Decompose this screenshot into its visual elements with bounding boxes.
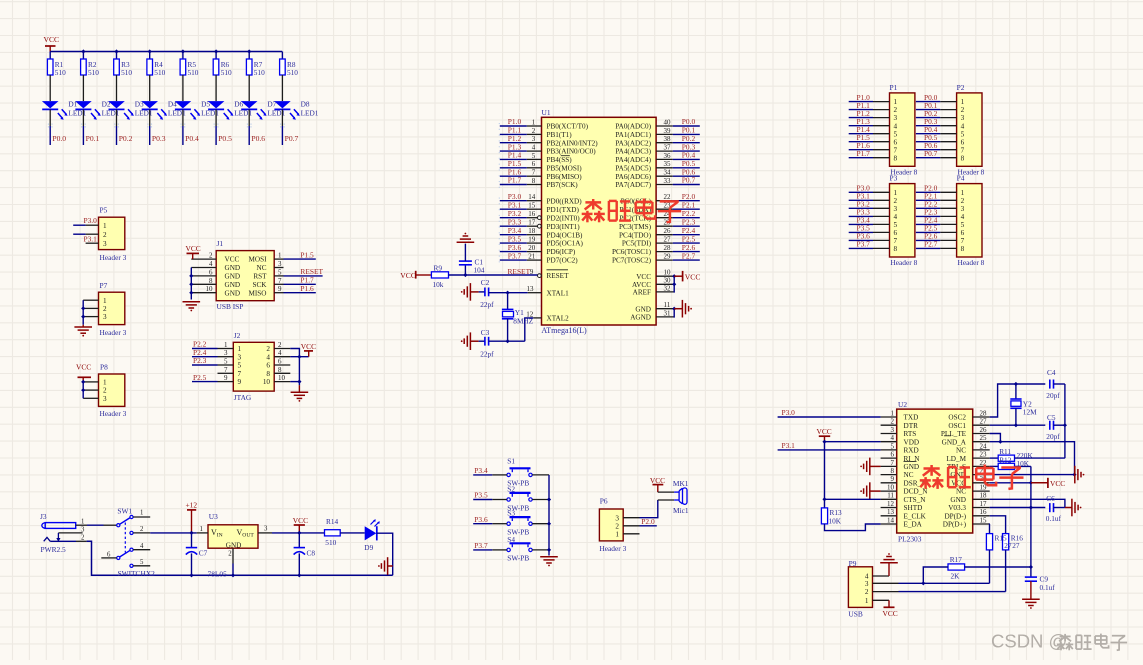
svg-text:2: 2	[140, 526, 144, 533]
svg-text:PB1(T1): PB1(T1)	[547, 131, 573, 139]
wire net P3.1 to U1 pin 15	[500, 208, 527, 210]
wire U2 GND_A to ground	[990, 442, 1075, 475]
svg-text:D7: D7	[267, 100, 276, 109]
svg-text:P0.7: P0.7	[924, 149, 938, 158]
U2 GND overline	[904, 461, 917, 463]
svg-text:3: 3	[103, 395, 107, 403]
svg-text:10: 10	[887, 484, 895, 492]
svg-text:4: 4	[961, 122, 965, 130]
svg-text:1: 1	[278, 252, 282, 260]
wire J2 pin10 stub	[290, 381, 299, 383]
svg-text:3: 3	[103, 240, 107, 248]
wire R17 to C9 node	[965, 566, 1031, 568]
svg-text:6: 6	[894, 229, 898, 237]
svg-text:39: 39	[664, 127, 672, 135]
wire net P1.5 to J1 MOSI	[284, 258, 316, 260]
svg-text:6: 6	[266, 362, 270, 370]
svg-text:NC: NC	[956, 488, 966, 496]
svg-text:3: 3	[224, 349, 228, 357]
svg-text:20pf: 20pf	[1046, 391, 1060, 400]
junction C8/rail	[297, 573, 301, 577]
svg-text:MOSI: MOSI	[249, 256, 268, 264]
svg-text:17: 17	[528, 219, 536, 227]
wire D5 to net P0.4	[182, 109, 184, 126]
svg-text:P3.7: P3.7	[857, 240, 871, 249]
wire net P2.5 to P4.6	[916, 231, 940, 233]
wire D7 to net P0.6	[248, 109, 250, 126]
svg-text:C8: C8	[307, 548, 316, 557]
capacitor C8	[298, 533, 300, 548]
svg-text:GND: GND	[225, 289, 241, 297]
wire J2 pin4 to VCC	[290, 356, 308, 358]
wire net P2.4 to U1 pin 26	[673, 234, 700, 236]
svg-text:4: 4	[894, 122, 898, 130]
svg-text:Header 3: Header 3	[100, 328, 127, 337]
svg-text:23: 23	[980, 451, 988, 459]
svg-text:510: 510	[55, 68, 66, 77]
wire net P1.0 to U1 pin 1	[500, 125, 527, 127]
junction C7/rail	[189, 573, 193, 577]
svg-text:510: 510	[88, 68, 99, 77]
svg-text:VCC: VCC	[636, 273, 651, 281]
svg-text:8: 8	[894, 245, 898, 253]
wire R4 to D4	[149, 75, 151, 101]
svg-text:18: 18	[528, 227, 536, 235]
svg-text:VCC: VCC	[225, 256, 240, 264]
junction P7 pin3	[81, 315, 85, 319]
wire net P2.0 to P4.1	[916, 191, 940, 193]
svg-text:2: 2	[228, 550, 232, 557]
svg-text:SHTD: SHTD	[904, 504, 923, 512]
wire net P2.6 to P4.7	[916, 239, 940, 241]
svg-text:VCC: VCC	[817, 427, 832, 436]
svg-text:PB5(MOSI): PB5(MOSI)	[547, 164, 583, 172]
wire J3.1 to SW1.3	[87, 524, 104, 526]
svg-text:32: 32	[664, 284, 672, 292]
svg-text:2: 2	[894, 197, 898, 205]
svg-text:VCC: VCC	[685, 272, 701, 281]
wire net P0.3 to P2.4	[916, 125, 940, 127]
svg-text:TXD: TXD	[904, 414, 919, 422]
capacitor C6 0.1uf	[1049, 503, 1051, 512]
svg-text:D5: D5	[201, 100, 210, 109]
svg-text:OSC1: OSC1	[948, 422, 966, 430]
svg-text:8: 8	[961, 154, 965, 162]
resistor R12 10K	[998, 463, 1014, 469]
svg-text:RESET: RESET	[547, 272, 570, 280]
svg-text:Header 8: Header 8	[890, 258, 917, 267]
svg-text:DP(D+): DP(D+)	[943, 521, 967, 529]
svg-text:37: 37	[664, 144, 672, 152]
svg-text:5: 5	[961, 221, 965, 229]
wire net P2.3 to P4.4	[916, 215, 940, 217]
svg-text:P2.7: P2.7	[924, 240, 938, 249]
svg-text:15: 15	[528, 202, 536, 210]
svg-text:D2: D2	[102, 100, 111, 109]
wire R1 to D1	[49, 75, 51, 101]
junction on VCC bus at R6	[214, 49, 218, 53]
svg-text:10: 10	[206, 285, 214, 293]
svg-text:34: 34	[664, 169, 672, 177]
junction on VCC bus at R3	[114, 49, 118, 53]
svg-text:D3: D3	[135, 100, 144, 109]
resistor R7 510	[246, 59, 252, 75]
ground (U2 pin10)	[870, 490, 881, 492]
wire net P1.7 to U1 pin 8	[500, 184, 527, 186]
svg-text:8: 8	[266, 370, 270, 378]
svg-text:4: 4	[140, 543, 144, 550]
svg-text:6: 6	[532, 160, 536, 168]
wire R14 to D9	[340, 532, 365, 534]
svg-text:P2.5: P2.5	[193, 373, 207, 382]
wire net P3.5 to U1 pin 19	[500, 242, 527, 244]
svg-text:7: 7	[224, 366, 228, 374]
svg-text:PA1(ADC1): PA1(ADC1)	[615, 131, 651, 139]
svg-text:PD6(ICP): PD6(ICP)	[547, 248, 576, 256]
wire P8 common	[82, 382, 84, 398]
svg-text:PWR2.5: PWR2.5	[41, 545, 67, 554]
wire R9 to U1 RESET	[449, 274, 538, 276]
svg-text:P0.7: P0.7	[285, 134, 299, 143]
svg-text:P3.5: P3.5	[474, 491, 488, 500]
svg-text:4: 4	[209, 260, 213, 268]
svg-text:2: 2	[894, 106, 898, 114]
ground (U2 right)	[1074, 466, 1076, 484]
ground (rail end)	[388, 565, 393, 567]
wire R16 to P9.2 net	[1005, 550, 1007, 592]
svg-text:P1.6: P1.6	[300, 284, 314, 293]
wire net P3.5 to P3.6	[849, 231, 873, 233]
svg-text:AGND: AGND	[630, 314, 651, 322]
junction V03.3	[1029, 505, 1033, 509]
ground (C9)	[1022, 598, 1040, 600]
svg-text:E_CLK: E_CLK	[904, 512, 927, 520]
wire C2 to U1 XTAL1	[489, 292, 528, 294]
svg-text:2: 2	[532, 127, 536, 135]
wire P7 common	[82, 300, 84, 325]
svg-text:510: 510	[154, 68, 165, 77]
resistor R9 10k	[431, 272, 448, 278]
junction OSC2/Y2	[1014, 382, 1018, 386]
svg-text:10: 10	[278, 374, 286, 382]
svg-text:11: 11	[887, 492, 894, 500]
svg-text:9: 9	[224, 374, 228, 382]
junction P8 pin1	[81, 380, 85, 384]
junction VCC pin20	[1029, 481, 1033, 485]
svg-text:C3: C3	[481, 328, 490, 337]
wire bus to R8	[281, 52, 283, 60]
svg-text:P2.7: P2.7	[682, 251, 696, 260]
svg-text:19: 19	[528, 236, 536, 244]
svg-text:27: 27	[1012, 541, 1020, 550]
svg-text:PB2(AIN0/INT2): PB2(AIN0/INT2)	[547, 139, 599, 147]
J3 switch arrow	[57, 533, 59, 539]
svg-text:14: 14	[528, 193, 536, 201]
svg-text:GND: GND	[904, 463, 920, 471]
LED D5	[175, 101, 192, 108]
wire net P3.0 to U2 TXD	[778, 416, 881, 418]
svg-text:PB3(AIN0/OC0): PB3(AIN0/OC0)	[547, 148, 597, 156]
svg-text:VCC: VCC	[650, 476, 665, 485]
wire P6.3 to MK1	[640, 500, 658, 518]
wire U2 VDD	[825, 441, 881, 443]
wire D4 to net P0.3	[149, 109, 151, 126]
svg-text:VCC: VCC	[883, 609, 898, 618]
wire J2 right common	[290, 349, 299, 386]
svg-text:RST: RST	[253, 273, 267, 281]
resistor R5 510	[180, 59, 186, 75]
svg-text:27: 27	[980, 418, 988, 426]
ground (P9 pin4, inverted)	[888, 563, 890, 576]
svg-text:8: 8	[278, 366, 282, 374]
wire net P2.3 to U1 pin 25	[673, 225, 700, 227]
wire net P3.7 to P3.8	[849, 247, 873, 249]
svg-text:20: 20	[528, 244, 536, 252]
wire net P2.0 to U1 pin 22	[673, 200, 700, 202]
wire U2 PLL_TE to GND_A	[990, 434, 1001, 442]
svg-text:10: 10	[263, 378, 271, 386]
svg-text:5: 5	[532, 152, 536, 160]
svg-text:PB0(XCT/T0): PB0(XCT/T0)	[547, 123, 589, 131]
svg-text:3: 3	[532, 135, 536, 143]
LED D2	[75, 101, 92, 108]
svg-text:MISO: MISO	[249, 289, 267, 297]
svg-text:8: 8	[891, 467, 895, 475]
svg-text:16: 16	[980, 508, 988, 516]
svg-text:3: 3	[264, 526, 268, 533]
svg-text:2K: 2K	[951, 571, 961, 580]
junction P8 pin2	[81, 388, 85, 392]
svg-text:18: 18	[980, 492, 988, 500]
svg-text:PB4(SS): PB4(SS)	[547, 156, 573, 164]
svg-text:NC: NC	[956, 447, 966, 455]
capacitor C2 22pf	[479, 291, 485, 293]
wire net P1.2 to U1 pin 3	[500, 142, 527, 144]
svg-text:PD0((RXD): PD0((RXD)	[547, 197, 583, 205]
svg-text:1: 1	[532, 118, 536, 126]
svg-text:P2.0: P2.0	[641, 517, 655, 526]
svg-text:P3.0: P3.0	[84, 216, 98, 225]
svg-text:24: 24	[980, 442, 988, 450]
svg-text:3: 3	[865, 580, 869, 588]
svg-text:26: 26	[664, 227, 672, 235]
svg-text:VCC: VCC	[400, 271, 416, 280]
svg-text:PA6(ADC6): PA6(ADC6)	[615, 173, 651, 181]
LED D1	[42, 101, 59, 108]
svg-text:PC7(TOSC2): PC7(TOSC2)	[612, 257, 652, 265]
svg-text:P4: P4	[957, 174, 965, 183]
wire P9.3 to R15/R17	[899, 582, 990, 584]
wire net RESET to J1 RST	[284, 275, 323, 277]
wire net P0.1 to P2.2	[916, 109, 940, 111]
wire U2 CTS_N	[825, 498, 881, 500]
svg-text:U3: U3	[209, 512, 218, 521]
svg-text:J1: J1	[217, 239, 224, 248]
svg-text:1: 1	[891, 409, 895, 417]
wire net P0.4 to U1 pin 36	[673, 158, 700, 160]
svg-text:2: 2	[103, 305, 107, 313]
svg-text:PC4(TDO): PC4(TDO)	[619, 231, 652, 239]
svg-text:PD2(INT0): PD2(INT0)	[547, 214, 581, 222]
svg-text:P2: P2	[957, 83, 965, 92]
resistor R8 510	[280, 59, 286, 75]
svg-text:RTS: RTS	[904, 430, 917, 438]
wire net P3.3 to U1 pin 17	[500, 225, 527, 227]
svg-text:8: 8	[209, 277, 213, 285]
junction RESET/C1	[463, 273, 467, 277]
svg-text:PA3(ADC2): PA3(ADC2)	[615, 139, 651, 147]
svg-text:17: 17	[980, 500, 988, 508]
svg-text:P3: P3	[890, 174, 898, 183]
svg-text:P0.4: P0.4	[185, 134, 199, 143]
svg-text:104: 104	[474, 265, 485, 274]
svg-text:USB ISP: USB ISP	[217, 302, 244, 311]
wire R15 to P9.3 net	[989, 550, 991, 583]
svg-text:GND: GND	[226, 541, 242, 549]
svg-text:0.1uf: 0.1uf	[1046, 514, 1062, 523]
wire net P0.0 to P2.1	[916, 101, 940, 103]
svg-text:1: 1	[894, 189, 898, 197]
wire net P1.6 to P1.7	[849, 149, 873, 151]
svg-text:PC5(TDI): PC5(TDI)	[622, 240, 652, 248]
svg-text:4: 4	[278, 349, 282, 357]
wire R3 to D3	[116, 75, 118, 101]
svg-text:SWITCHX2: SWITCHX2	[118, 569, 156, 578]
svg-text:ATmega16(L): ATmega16(L)	[541, 326, 587, 335]
junction P7 pin2	[81, 306, 85, 310]
wire net P3.1 to P5.2	[73, 233, 85, 235]
svg-text:DCD_N: DCD_N	[904, 488, 929, 496]
junction J1 pin10	[189, 291, 193, 295]
svg-text:10k: 10k	[433, 280, 444, 289]
svg-text:6: 6	[209, 268, 213, 276]
svg-text:PD7(OC2): PD7(OC2)	[547, 257, 579, 265]
svg-text:1: 1	[615, 530, 619, 538]
ground (C1, inverted)	[457, 241, 475, 243]
wire D3 to net P0.2	[116, 109, 118, 126]
ground (C2)	[470, 291, 478, 293]
svg-text:P1: P1	[890, 83, 898, 92]
svg-text:Mic1: Mic1	[673, 506, 689, 515]
svg-text:22pf: 22pf	[480, 349, 494, 358]
crystal Y2 12M	[1015, 384, 1017, 399]
watermark red 1	[592, 199, 594, 210]
resistor R15 27	[986, 534, 992, 550]
junction on VCC bus at R7	[247, 49, 251, 53]
resistor R14 510	[325, 530, 341, 536]
wire net P0.3 to U1 pin 37	[673, 150, 700, 152]
resistor R1 510	[47, 59, 53, 75]
svg-text:PL2303: PL2303	[898, 535, 922, 544]
svg-text:P3.1: P3.1	[782, 441, 796, 450]
svg-text:510: 510	[287, 68, 298, 77]
svg-text:3: 3	[278, 260, 282, 268]
wire net P1.1 to P1.2	[849, 109, 873, 111]
svg-text:GND: GND	[225, 281, 241, 289]
svg-text:21: 21	[528, 253, 536, 261]
svg-text:3: 3	[961, 205, 965, 213]
wire net P3.4 to S1	[473, 474, 492, 476]
svg-text:1: 1	[103, 379, 107, 387]
svg-text:Header 8: Header 8	[958, 258, 985, 267]
svg-text:22pf: 22pf	[480, 300, 494, 309]
watermark red 2	[930, 465, 933, 476]
svg-text:P5: P5	[100, 206, 108, 215]
svg-text:SW1: SW1	[117, 506, 132, 515]
ground (S1-S4)	[540, 556, 558, 558]
svg-text:GND: GND	[950, 496, 966, 504]
wire U2 VCC pin20	[990, 482, 1031, 484]
wire net P2.2 to P4.3	[916, 207, 940, 209]
svg-text:3: 3	[961, 114, 965, 122]
svg-text:4: 4	[891, 434, 895, 442]
svg-text:2: 2	[103, 231, 107, 239]
svg-text:510: 510	[221, 68, 232, 77]
svg-text:8: 8	[894, 154, 898, 162]
svg-text:VCC: VCC	[293, 516, 308, 525]
svg-text:4: 4	[961, 213, 965, 221]
wire net P0.5 to U1 pin 35	[673, 167, 700, 169]
wire U2 DP(D+) to R15	[989, 524, 991, 534]
wire net P3.2 to P3.3	[849, 207, 873, 209]
wire U2 TRI_S to R12	[990, 465, 999, 467]
wire net P2.3 to J2	[192, 364, 218, 366]
junction VCC/C8	[297, 531, 301, 535]
svg-text:2: 2	[865, 588, 869, 596]
svg-text:1: 1	[224, 341, 228, 349]
svg-text:P6: P6	[600, 496, 608, 505]
svg-text:2: 2	[81, 535, 85, 542]
junction U2 VDD	[822, 440, 826, 444]
svg-text:JTAG: JTAG	[234, 393, 252, 402]
capacitor C1 104	[464, 265, 466, 275]
power symbol VCC (U1)	[674, 275, 682, 277]
ground (C3)	[470, 340, 478, 342]
svg-text:27: 27	[1004, 541, 1012, 550]
wire R5 to D5	[182, 75, 184, 101]
svg-text:5: 5	[894, 221, 898, 229]
svg-text:2: 2	[209, 252, 213, 260]
wire net P2.7 to U1 pin 29	[673, 259, 700, 261]
svg-text:XTAL1: XTAL1	[547, 289, 570, 297]
svg-text:P0.3: P0.3	[152, 134, 166, 143]
junction C5 right	[1063, 423, 1067, 427]
ground (J1)	[183, 301, 201, 303]
svg-text:78L05: 78L05	[208, 569, 228, 578]
svg-text:2: 2	[961, 197, 965, 205]
capacitor C9 0.1uf	[1030, 567, 1032, 577]
junction U1 pin11	[672, 307, 676, 311]
svg-text:P1.7: P1.7	[508, 176, 522, 185]
junction U1 pin10	[672, 274, 676, 278]
junction S3	[547, 522, 551, 526]
wire net P3.0 to P5.1	[73, 224, 85, 226]
wire D8 to net P0.7	[281, 109, 283, 126]
svg-text:VCC: VCC	[186, 244, 201, 253]
wire U2 LD_M to R11	[990, 457, 999, 459]
svg-text:PA7(ADC7): PA7(ADC7)	[615, 181, 651, 189]
grid endpoint dots (U1 left stubs)	[498, 123, 500, 188]
wire net P3.2 to U1 pin 16	[500, 217, 527, 219]
wire P9.3 branch to R17	[923, 567, 948, 583]
svg-text:R9: R9	[434, 263, 443, 272]
junction +12/C7	[189, 531, 193, 535]
LED D6	[208, 101, 225, 108]
svg-text:28: 28	[664, 244, 672, 252]
svg-text:6: 6	[278, 358, 282, 366]
wire net P3.0 to P3.1	[849, 191, 873, 193]
wire R11 right	[1015, 457, 1065, 459]
